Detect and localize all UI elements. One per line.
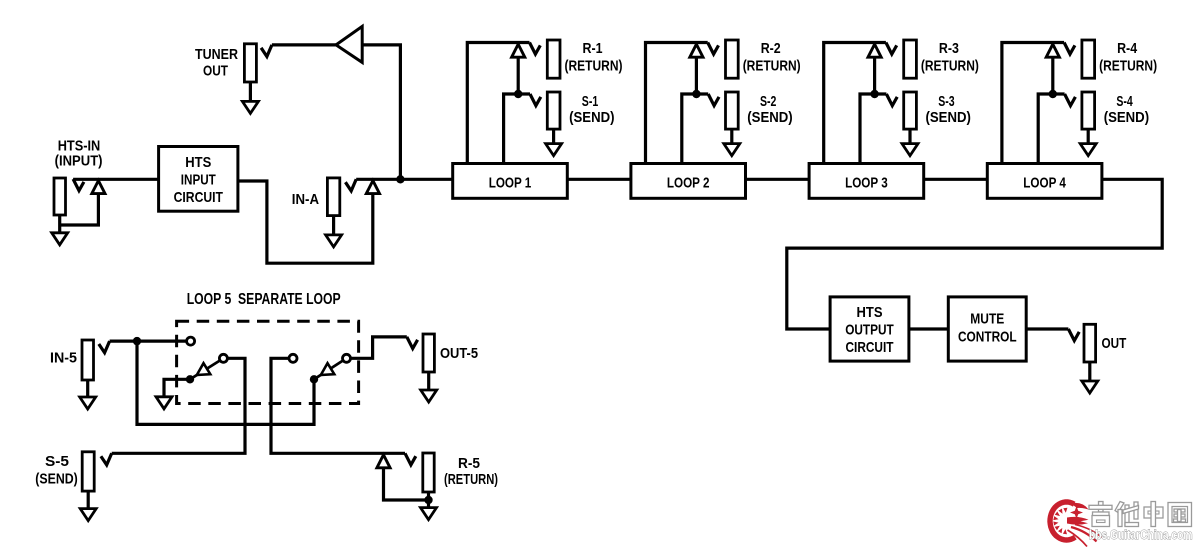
wire node A up to buffer output (362, 45, 400, 179)
IN-5 tip contact V (99, 341, 110, 353)
svg-text:R-4: R-4 (1117, 40, 1138, 57)
label HTS-IN (58, 138, 101, 155)
svg-text:CIRCUIT: CIRCUIT (846, 339, 894, 356)
jack TUNER OUT (244, 44, 256, 82)
block LOOP 2 (631, 164, 746, 199)
node IN-5 junction (133, 337, 141, 345)
jack S-1 (547, 92, 560, 129)
wire R-1 shunt to S-1 node (517, 57, 520, 94)
label (SEND) 2 (747, 109, 792, 126)
wire HTS-IN sleeve to ground (58, 215, 61, 236)
switch SW1 lever top contact (open circle) (219, 354, 227, 362)
label LOOP 5 SEPARATE LOOP (187, 291, 341, 308)
svg-text:S-1: S-1 (582, 93, 598, 110)
svg-text:(SEND): (SEND) (747, 109, 792, 126)
svg-text:OUTPUT: OUTPUT (845, 322, 894, 339)
switch SW2 common node (310, 375, 318, 383)
wire node A to LOOP 1 (356, 178, 453, 181)
wire LOOP 4 to R-4 switch (1002, 43, 1064, 164)
svg-text:R-1: R-1 (583, 40, 603, 57)
svg-text:R-5: R-5 (458, 455, 480, 472)
jack IN-5 (82, 340, 94, 380)
switch SW1 lever arrowhead (197, 363, 211, 375)
label S-4 (1116, 93, 1133, 110)
wire IN-5 sleeve to ground (86, 380, 89, 401)
node S-1 junction (514, 90, 522, 98)
wire LOOP 3 to R-3 switch (824, 43, 886, 164)
logo text bbs.GuitarChina.com (1089, 528, 1193, 542)
wire HTS input circuit output to IN-A shunt (238, 181, 373, 263)
label (RETURN) 5 (444, 471, 498, 488)
label R-4 (1117, 40, 1138, 57)
jack S-4 (1082, 92, 1095, 129)
S-4 tip contact V (1065, 94, 1076, 106)
wire LOOP 4 to HTS output circuit (787, 179, 1162, 329)
node S-2 junction (692, 90, 700, 98)
wire SW2 output to OUT-5 tip (351, 337, 407, 358)
ground (S-1) (546, 144, 562, 156)
wire OUT sleeve to ground (1088, 362, 1091, 385)
ground (IN-A) (326, 235, 342, 247)
logo character guo (1168, 503, 1192, 527)
wire S-2 sleeve to ground (730, 129, 733, 147)
wire R-5 sleeve to ground (427, 492, 430, 511)
svg-text:HTS: HTS (857, 304, 883, 321)
ground (IN-5) (80, 397, 96, 409)
HTS-IN tip contact V (73, 179, 84, 191)
S-3 tip contact V (886, 94, 897, 106)
block LOOP 1 (453, 164, 568, 199)
ground (S-4) (1080, 144, 1096, 156)
wire R-2 shunt to S-2 node (695, 57, 698, 94)
svg-text:LOOP 1: LOOP 1 (489, 175, 532, 192)
label (RETURN) 1 (565, 58, 623, 75)
switch SW2 lever (314, 361, 343, 380)
wire LOOP 2 to R-2 switch (646, 43, 708, 164)
wire HTS-IN shunt to sleeve (60, 193, 99, 225)
R-5 shunt switch arrow (377, 455, 390, 468)
jack S-3 (904, 92, 917, 129)
svg-text:S-4: S-4 (1116, 93, 1133, 110)
block MUTE CONTROL (948, 297, 1026, 361)
svg-text:(SEND): (SEND) (926, 109, 971, 126)
block LOOP 4 (987, 164, 1102, 199)
svg-text:(RETURN): (RETURN) (444, 471, 498, 488)
svg-text:S-3: S-3 (938, 93, 954, 110)
ground (S-5) (80, 509, 96, 521)
logo character zhong (1144, 502, 1163, 527)
wire TUNER OUT sleeve to ground (249, 82, 252, 105)
wire LOOP 1 to R-1 switch (467, 43, 529, 164)
wire LOOP 4 to S-4 tip (1038, 94, 1064, 164)
wire mute control to OUT tip (1026, 327, 1068, 330)
ground (S-3) (902, 144, 918, 156)
svg-text:(SEND): (SEND) (1104, 109, 1149, 126)
jack R-1 (547, 40, 560, 78)
svg-text:S-5: S-5 (45, 453, 69, 470)
jack IN-A (327, 178, 339, 216)
svg-text:LOOP 4: LOOP 4 (1023, 175, 1066, 192)
wire IN-5 node to SW2 common (137, 341, 314, 424)
op-amp buffer U1 (tuner buffer) (336, 26, 362, 62)
switch SW1 lever (190, 361, 220, 380)
logo character ji (1089, 502, 1112, 527)
jack OUT-5 (423, 334, 434, 372)
ground (SW1 common) (156, 397, 172, 409)
wire buffer output to TUNER OUT tip (272, 43, 336, 46)
label (RETURN) 4 (1099, 58, 1157, 75)
switch SW2 throw contact (open circle) (289, 354, 297, 362)
jack R-3 (904, 40, 917, 78)
jack R-2 (726, 40, 739, 78)
label TUNER (195, 46, 238, 63)
svg-text:(INPUT): (INPUT) (55, 152, 103, 169)
wire R-5 shunt to sleeve (384, 467, 429, 500)
label (SEND) 3 (926, 109, 971, 126)
label (SEND) 4 (1104, 109, 1149, 126)
wire LOOP 3 to LOOP 4 (924, 178, 988, 181)
label R-3 (939, 40, 959, 57)
node A junction (396, 175, 404, 183)
svg-text:S-2: S-2 (760, 93, 776, 110)
jack R-4 (1082, 40, 1095, 78)
S-5 tip contact V (101, 453, 112, 465)
S-1 tip contact V (530, 94, 541, 106)
label (INPUT) (55, 152, 103, 169)
svg-text:(SEND): (SEND) (35, 471, 78, 488)
switch SW1 common node (186, 375, 194, 383)
svg-text:LOOP 5 SEPARATE LOOP: LOOP 5 SEPARATE LOOP (187, 291, 341, 308)
switch SW2 lever arrowhead (321, 363, 335, 375)
svg-text:TUNER: TUNER (195, 46, 238, 63)
IN-A shunt switch arrow (366, 181, 379, 194)
svg-text:(SEND): (SEND) (569, 109, 614, 126)
wire LOOP 1 to LOOP 2 (567, 178, 631, 181)
dashed boundary LOOP 5 (177, 321, 359, 403)
wire S-1 sleeve to ground (552, 129, 555, 147)
svg-text:INPUT: INPUT (181, 172, 216, 189)
wire OUT-5 sleeve to ground (427, 372, 430, 394)
label (SEND) 5 (35, 471, 78, 488)
node S-3 junction (870, 90, 878, 98)
svg-text:R-3: R-3 (939, 40, 959, 57)
logo dragon G icon (1050, 502, 1102, 547)
svg-text:(RETURN): (RETURN) (1099, 58, 1157, 75)
jack HTS-IN (input jack) (54, 178, 66, 215)
R-4 shunt switch arrow (1046, 44, 1059, 57)
svg-text:OUT-5: OUT-5 (440, 345, 478, 362)
IN-A tip contact V (345, 179, 356, 191)
wire HTS output circuit to mute control (909, 327, 948, 330)
label S-5 (45, 453, 69, 470)
svg-text:CONTROL: CONTROL (958, 329, 1017, 346)
wire LOOP 2 to LOOP 3 (746, 178, 810, 181)
svg-text:(RETURN): (RETURN) (565, 58, 623, 75)
node R-5 sleeve junction (424, 496, 432, 504)
label R-1 (583, 40, 603, 57)
block LOOP 3 (809, 164, 924, 199)
R-4 tip contact V (1064, 43, 1075, 55)
R-2 shunt switch arrow (690, 44, 703, 57)
OUT-5 tip contact V (407, 337, 418, 349)
svg-text:OUT: OUT (203, 63, 228, 80)
svg-text:(RETURN): (RETURN) (743, 58, 801, 75)
label IN-5 (50, 350, 77, 367)
svg-text:R-2: R-2 (761, 40, 781, 57)
ground (OUT-5) (421, 390, 437, 402)
label OUT (1102, 335, 1127, 352)
wire HTS-IN tip to HTS input circuit (73, 178, 159, 181)
HTS-IN shunt switch arrow (92, 181, 105, 194)
svg-text:MUTE: MUTE (970, 311, 1004, 328)
label (SEND) 1 (569, 109, 614, 126)
block HTS OUTPUT CIRCUIT (830, 297, 909, 361)
ground (OUT) (1082, 381, 1098, 393)
R-3 tip contact V (886, 43, 897, 55)
svg-text:CIRCUIT: CIRCUIT (174, 189, 223, 206)
svg-text:HTS: HTS (185, 154, 211, 171)
switch SW2 output contact (open circle) (343, 354, 351, 362)
wire IN-A sleeve to ground (332, 216, 335, 239)
R-1 tip contact V (530, 43, 541, 55)
wire LOOP 1 to S-1 tip (504, 94, 530, 164)
label S-3 (938, 93, 954, 110)
switch SW1 throw contact (open circle) (187, 337, 195, 345)
ground (HTS-IN) (52, 233, 68, 245)
label (RETURN) 2 (743, 58, 801, 75)
wire S-5 sleeve to ground (87, 491, 90, 512)
jack S-5 (82, 452, 94, 491)
R-3 shunt switch arrow (868, 44, 881, 57)
label (RETURN) 3 (921, 58, 979, 75)
wire SW2 throw to R-5 tip (271, 358, 405, 453)
jack S-2 (726, 92, 739, 129)
label OUT-5 (440, 345, 478, 362)
wire R-3 shunt to S-3 node (873, 57, 876, 94)
svg-text:bbs.GuitarChina.com: bbs.GuitarChina.com (1089, 528, 1193, 542)
label S-1 (582, 93, 598, 110)
ground (R-5) (421, 508, 437, 520)
wire R-4 shunt to S-4 node (1051, 57, 1054, 94)
svg-text:IN-A: IN-A (292, 191, 319, 208)
wire S-3 sleeve to ground (908, 129, 911, 147)
wire LOOP 2 to S-2 tip (682, 94, 708, 164)
label R-5 (458, 455, 480, 472)
jack R-5 (423, 453, 434, 492)
R-2 tip contact V (708, 43, 719, 55)
jack OUT (1084, 324, 1096, 362)
block HTS INPUT CIRCUIT (159, 147, 238, 212)
label OUT (tuner) (203, 63, 228, 80)
wire IN-5 tip to switch SW1 throw (110, 340, 187, 343)
R-1 shunt switch arrow (512, 44, 525, 57)
node S-4 junction (1049, 90, 1057, 98)
OUT tip contact V (1068, 329, 1079, 341)
svg-text:IN-5: IN-5 (50, 350, 77, 367)
wire SW1 common to ground (164, 379, 190, 400)
wire S-4 sleeve to ground (1087, 129, 1090, 147)
label IN-A (292, 191, 319, 208)
svg-text:LOOP 3: LOOP 3 (845, 175, 888, 192)
ground (S-2) (724, 144, 740, 156)
ground (TUNER OUT) (242, 101, 258, 113)
wire LOOP 3 to S-3 tip (860, 94, 886, 164)
R-5 tip contact V (405, 453, 416, 465)
svg-text:LOOP 2: LOOP 2 (667, 175, 710, 192)
label S-2 (760, 93, 776, 110)
label R-2 (761, 40, 781, 57)
TUNER OUT tip contact V (261, 45, 272, 57)
wire SW1 throw to S-5 tip (112, 358, 245, 453)
logo character ta (1115, 502, 1139, 527)
svg-text:OUT: OUT (1102, 335, 1127, 352)
S-2 tip contact V (708, 94, 719, 106)
svg-text:(RETURN): (RETURN) (921, 58, 979, 75)
